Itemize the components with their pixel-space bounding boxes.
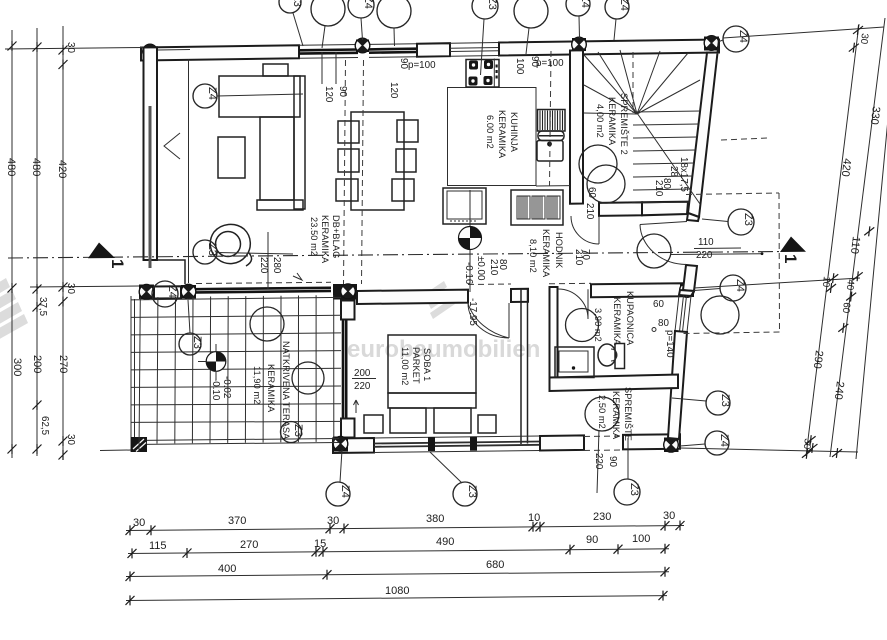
svg-text:Z3: Z3 (719, 394, 731, 407)
svg-text:210: 210 (488, 259, 499, 276)
svg-text:KERAMIKA: KERAMIKA (497, 110, 507, 159)
svg-text:Z3: Z3 (291, 0, 303, 7)
svg-text:KERAMIKA: KERAMIKA (541, 229, 551, 278)
svg-text:-0.10: -0.10 (210, 378, 221, 401)
svg-text:p=140: p=140 (664, 330, 675, 358)
svg-text:90: 90 (337, 86, 348, 97)
svg-text:KERAMIKA: KERAMIKA (266, 364, 276, 413)
svg-text:115: 115 (149, 540, 167, 552)
svg-text:270: 270 (240, 539, 258, 551)
window 60/80 in right wall (675, 295, 691, 332)
svg-text:Z4: Z4 (362, 0, 374, 9)
svg-text:Z3: Z3 (486, 0, 498, 10)
280/220 arrow on door (293, 273, 302, 280)
appliance w/ striped blocks (511, 190, 563, 225)
svg-text:Z3: Z3 (742, 213, 754, 226)
kitchen lower cabinet (443, 188, 486, 224)
sofa (219, 64, 305, 210)
svg-text:100: 100 (632, 533, 650, 545)
kupaonica door leaf + arc (558, 289, 588, 319)
svg-text:1080: 1080 (385, 585, 409, 597)
svg-text:11,90 m2: 11,90 m2 (252, 366, 262, 404)
svg-text:30: 30 (65, 283, 76, 294)
wall piece between columns (154, 286, 181, 298)
tile grid (131, 295, 341, 452)
svg-text:HODNIK: HODNIK (554, 232, 564, 269)
svg-text:60: 60 (653, 299, 664, 310)
svg-text:280: 280 (271, 257, 282, 274)
crossed circles on top wall (143, 44, 158, 59)
svg-text:120: 120 (388, 82, 399, 99)
svg-text:220: 220 (258, 257, 269, 274)
svg-text:Z4: Z4 (166, 285, 178, 298)
svg-text:220: 220 (354, 381, 371, 392)
svg-text:240: 240 (832, 381, 846, 401)
inner offset line (188, 60, 190, 284)
svg-text:200: 200 (354, 368, 371, 379)
svg-text:230: 230 (593, 511, 611, 523)
svg-text:4,00 m2: 4,00 m2 (595, 104, 605, 138)
svg-text:PARKET: PARKET (411, 347, 421, 384)
svg-text:-0.16: -0.16 (463, 262, 474, 285)
svg-text:420: 420 (56, 160, 68, 178)
dashed center + fan (632, 52, 634, 113)
svg-text:30: 30 (858, 33, 870, 46)
chairs (336, 120, 418, 201)
armchair (210, 224, 251, 266)
svg-text:30: 30 (663, 510, 675, 522)
svg-text:Z3: Z3 (628, 483, 640, 496)
window W3 100/90 p=100 (kitchen) (450, 43, 499, 57)
svg-text:2,50 m2: 2,50 m2 (597, 395, 607, 429)
svg-text:270: 270 (57, 355, 69, 373)
black post under cc at 579 (572, 38, 586, 51)
svg-text:SOBA 1: SOBA 1 (422, 348, 432, 381)
svg-text:80: 80 (658, 318, 669, 329)
svg-text:100: 100 (514, 58, 525, 75)
wall seg B (kitchen right + stair top) (499, 40, 719, 56)
right partition (10cm) (521, 289, 528, 444)
svg-text:eurobaumobilien: eurobaumobilien (347, 336, 540, 363)
svg-text:480: 480 (30, 158, 42, 176)
sink bowl (537, 141, 563, 162)
svg-text:KUHINJA: KUHINJA (509, 112, 519, 153)
glazing in left wall (149, 106, 152, 268)
svg-text:Z4: Z4 (718, 434, 730, 447)
shower (555, 347, 594, 378)
svg-text:15: 15 (314, 538, 326, 550)
svg-text:210: 210 (573, 249, 584, 266)
chevron (164, 133, 180, 159)
svg-text:60: 60 (586, 187, 597, 198)
svg-text:300: 300 (11, 358, 23, 376)
corner column (131, 437, 147, 452)
svg-text:±0.00: ±0.00 (475, 256, 486, 281)
svg-text:90: 90 (586, 534, 598, 546)
window W1 120/90 (299, 45, 358, 59)
svg-text:KERAMIKA: KERAMIKA (612, 297, 622, 346)
svg-text:110: 110 (848, 236, 862, 255)
svg-text:220: 220 (593, 453, 604, 470)
svg-text:10: 10 (820, 276, 832, 289)
svg-text:KUPAONICA: KUPAONICA (625, 291, 635, 346)
svg-text:200: 200 (31, 355, 43, 373)
left edge (130, 296, 132, 452)
svg-text:10: 10 (528, 512, 540, 524)
svg-text:SPREMIŠTE 2: SPREMIŠTE 2 (619, 93, 629, 155)
svg-text:SPREMIŠTE: SPREMIŠTE (623, 387, 633, 441)
svg-text:30: 30 (65, 434, 76, 445)
svg-text:37,5: 37,5 (37, 297, 48, 317)
left wall w/ sliding door 200/220 (341, 301, 355, 320)
kitchen dashed flue line (550, 51, 552, 186)
svg-text:1: 1 (108, 259, 127, 268)
stove (466, 60, 499, 88)
big column right of door (333, 284, 357, 300)
soba1 door leaf + arc (468, 303, 509, 338)
svg-text:120: 120 (323, 86, 334, 103)
kupaonica top wall: opening then wall (549, 282, 591, 285)
svg-text:220: 220 (696, 250, 713, 261)
kupaonica right wall upper bit (679, 290, 694, 296)
svg-text:30: 30 (133, 517, 145, 529)
sliding door 280/220 (thick double line) (196, 288, 331, 289)
svg-text:290: 290 (811, 350, 825, 370)
kitchen floor boundary (448, 88, 537, 186)
svg-text:110: 110 (698, 237, 714, 248)
svg-text:-17.95: -17.95 (467, 298, 478, 326)
extension lines (5, 27, 884, 452)
svg-text:490: 490 (436, 536, 454, 548)
svg-text:-0.02: -0.02 (221, 376, 232, 398)
svg-text:370: 370 (228, 515, 246, 527)
hodnik/kitchen boundary (536, 185, 570, 187)
svg-text:28: 28 (668, 166, 679, 177)
corner post top-right (704, 37, 719, 51)
door opening soba1 80/210 : dashed lintel (468, 283, 511, 286)
svg-text:11,00 m2: 11,00 m2 (400, 347, 410, 385)
treads (632, 111, 700, 203)
wall stub (417, 43, 450, 57)
dashed lintel above door (196, 282, 331, 283)
watermark logo left edge (0, 278, 28, 341)
coffee table (218, 137, 245, 178)
beam pair living/dining (344, 60, 346, 284)
svg-text:6.00 m2: 6.00 m2 (485, 115, 495, 149)
bottom wall of stair room w/ door (599, 202, 642, 216)
kupaonica left wall (550, 287, 558, 378)
svg-text:30: 30 (327, 515, 339, 527)
svg-text:Z3: Z3 (292, 424, 304, 437)
svg-text:210: 210 (584, 203, 595, 220)
window in soba1 south wall (374, 436, 540, 453)
window W2 120/90 p=100 (369, 44, 417, 58)
svg-text:400: 400 (218, 563, 236, 575)
svg-text:p=100: p=100 (536, 58, 564, 69)
svg-text:Z4: Z4 (618, 0, 630, 11)
left column (139, 285, 154, 300)
terrace benchmark (198, 344, 226, 380)
svg-text:8,10 m2: 8,10 m2 (528, 239, 538, 273)
kitchen right wall (to stair) (570, 50, 583, 203)
svg-text:380: 380 (426, 513, 444, 525)
svg-text:NATKRIVENA TERASA: NATKRIVENA TERASA (281, 341, 291, 440)
column in wall (356, 40, 369, 53)
watermark logo center (426, 281, 455, 319)
svg-text:DB+BLAG: DB+BLAG (331, 215, 341, 258)
svg-text:1: 1 (781, 254, 800, 263)
svg-text:KERAMIKA: KERAMIKA (611, 391, 621, 440)
svg-text:90: 90 (607, 456, 618, 467)
svg-text:420: 420 (839, 158, 853, 178)
svg-text:KERAMIKA: KERAMIKA (320, 215, 330, 264)
svg-text:210: 210 (653, 180, 664, 197)
svg-text:480: 480 (5, 158, 17, 176)
toilet (615, 344, 625, 369)
svg-text:30: 30 (801, 438, 813, 451)
svg-text:23.50 m2: 23.50 m2 (309, 217, 319, 256)
svg-text:Z3: Z3 (466, 485, 478, 498)
svg-text:Z3: Z3 (206, 243, 218, 256)
wall below window to bottom corner (668, 331, 687, 439)
door 60/210 arc (571, 216, 599, 244)
spremiste door gap 584-623 w/ dashes (584, 435, 623, 438)
wall below door to kupaonica corner (683, 265, 697, 291)
svg-text:KERAMIKA: KERAMIKA (607, 97, 617, 146)
svg-text:30: 30 (65, 42, 76, 53)
svg-text:Z4: Z4 (579, 0, 591, 8)
wall jog bottom-left of living (157, 260, 185, 284)
bottom edge (131, 439, 339, 441)
dining table (351, 112, 404, 210)
svg-text:Z4: Z4 (206, 87, 218, 100)
wall seg A (living, left) (141, 45, 299, 60)
svg-text:40: 40 (844, 279, 856, 292)
svg-text:330: 330 (868, 106, 882, 126)
stair right wall (688, 40, 719, 218)
svg-text:680: 680 (486, 559, 504, 571)
svg-text:p=100: p=100 (408, 60, 436, 71)
sink counter: drainer (striped) (538, 110, 566, 132)
diagonal (637, 113, 700, 204)
wall between doors (511, 289, 528, 302)
canopy dashed rect right (682, 193, 780, 334)
svg-text:3,90 m2: 3,90 m2 (593, 308, 603, 342)
svg-text:Z3: Z3 (191, 336, 203, 349)
svg-text:60: 60 (840, 302, 852, 315)
faucet band (538, 131, 564, 141)
column 2 (181, 285, 196, 299)
svg-text:62,5: 62,5 (39, 416, 50, 436)
svg-text:Z4: Z4 (339, 485, 351, 498)
